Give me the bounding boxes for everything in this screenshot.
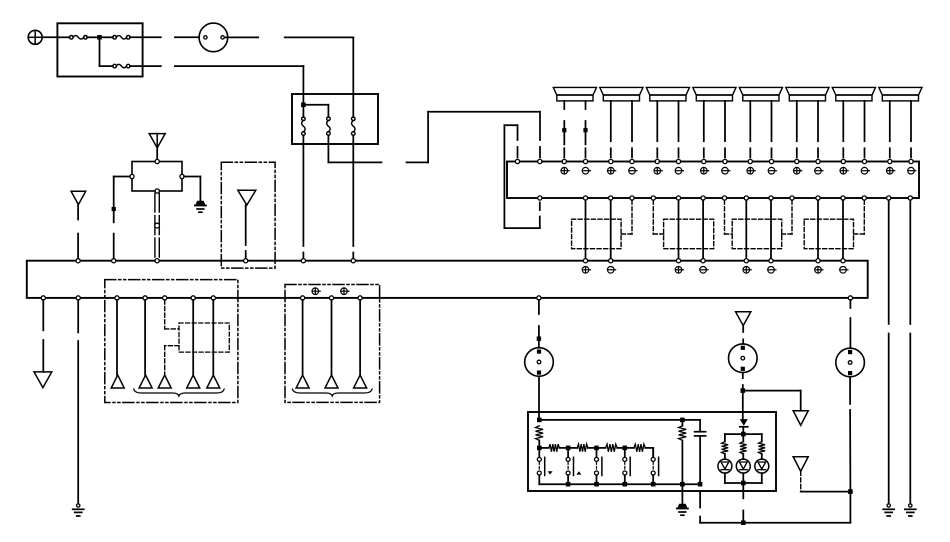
- fuse F4: [302, 117, 306, 135]
- ignition coil T4: [693, 87, 736, 101]
- wire coil T7 pin 2: [864, 101, 866, 158]
- resistor R8: [740, 442, 747, 454]
- capacitor C1: [695, 432, 706, 436]
- fuse F5: [327, 117, 331, 135]
- wire strip to ECM: [610, 200, 612, 258]
- wire: [568, 447, 596, 449]
- node splice: [112, 207, 116, 211]
- resistor R1: [536, 426, 544, 441]
- wire: [742, 326, 744, 344]
- relay box: [292, 94, 378, 144]
- wire: [539, 447, 568, 449]
- resistor R6: [679, 426, 687, 441]
- wire coil T7 pin 1: [842, 101, 844, 158]
- node: [566, 446, 571, 451]
- wire: [359, 300, 361, 375]
- brace: [134, 389, 225, 396]
- ignition coil T3: [646, 87, 689, 101]
- node: [594, 482, 599, 487]
- wire: [742, 427, 744, 434]
- wire ECM to arrow A4: [42, 300, 44, 372]
- wire arrow A2 to ECM: [77, 205, 79, 259]
- ignition coil T7: [832, 87, 875, 101]
- node: [623, 446, 628, 451]
- wire dashed: [165, 300, 179, 329]
- wire fuse F4 to ECM: [302, 135, 304, 258]
- wire coil T3 pin 2: [678, 101, 680, 158]
- resistor R5: [634, 444, 645, 452]
- wire fuse F3 to relay box: [130, 66, 303, 105]
- node relay junction: [301, 103, 306, 108]
- wire dashed arrow A15: [800, 471, 802, 491]
- wire fuse F2 to ignition switch: [130, 36, 199, 38]
- wire coil T5 pin 1: [749, 101, 751, 158]
- resistor R9: [759, 442, 766, 454]
- wire ECM to sensor SN1: [538, 300, 540, 348]
- wire coil pin 1: [563, 101, 565, 158]
- node: [848, 489, 853, 494]
- ignition coil T2: [600, 87, 643, 101]
- wire capacitor return: [699, 492, 701, 523]
- sensor SN3: [836, 348, 865, 377]
- ECM top terminals: [76, 259, 845, 263]
- wire strip to ground right 1: [888, 200, 890, 503]
- LED D3: [736, 459, 750, 473]
- connector arrow A11: [325, 375, 338, 388]
- node: [680, 418, 685, 423]
- ground G4: [883, 504, 894, 516]
- LED D4: [755, 459, 769, 473]
- wire strip to ground right 2: [909, 200, 911, 503]
- shield box S2: [105, 280, 238, 403]
- connector arrow A7: [158, 375, 171, 388]
- brace: [292, 389, 372, 396]
- shield link box: [179, 323, 229, 352]
- connector arrow A6: [139, 375, 152, 388]
- wire coil T2 pin 1: [610, 101, 612, 158]
- wire: [100, 36, 113, 38]
- ignition coil T8: [879, 87, 922, 101]
- connector strip bottom terminals: [538, 196, 913, 200]
- wire ignition switch to relay box: [225, 37, 354, 117]
- coupler C1: [572, 219, 622, 249]
- LED D2: [718, 459, 732, 473]
- connector arrow A10: [296, 375, 309, 388]
- wire to arrow A14: [743, 391, 801, 411]
- wire ECM to sensor SN3: [849, 300, 851, 348]
- wire dashed: [653, 200, 663, 234]
- connector arrow A12: [354, 375, 367, 388]
- wire LED rail: [725, 434, 762, 442]
- shield box S3: [285, 285, 380, 403]
- wire junction down: [99, 37, 101, 66]
- wire bottom rail: [539, 483, 700, 485]
- node: [680, 482, 685, 487]
- node splice: [583, 128, 587, 132]
- wire sensor SN1 to control unit: [538, 376, 540, 420]
- coupler C2: [664, 219, 714, 249]
- wire strip to ECM: [842, 200, 844, 258]
- wire: [116, 300, 118, 375]
- node: [741, 520, 746, 525]
- ground G1: [195, 201, 206, 212]
- wire top rail: [539, 419, 700, 421]
- wire coil T6 pin 2: [817, 101, 819, 158]
- wire: [849, 377, 851, 492]
- wire: [699, 436, 701, 484]
- wire coil T8 pin 1: [889, 101, 891, 158]
- node: [623, 482, 628, 487]
- node: [651, 482, 656, 487]
- ignition switch SW1: [199, 23, 228, 52]
- connector arrow A13: [736, 312, 751, 326]
- wire: [302, 300, 304, 375]
- resistor R4: [606, 444, 618, 452]
- fuse F2: [113, 36, 130, 40]
- ignition coil T5: [739, 87, 782, 101]
- wire: [801, 491, 851, 493]
- ECM bottom terminals: [41, 296, 852, 300]
- node fuse-box junction: [97, 35, 102, 40]
- wire: [331, 300, 333, 375]
- fuse F6: [352, 117, 356, 135]
- connector strip pin marks: [561, 167, 916, 174]
- contact K2: [566, 448, 581, 484]
- wire LED return: [742, 483, 744, 523]
- connector strip top terminals: [515, 159, 913, 163]
- node splice: [562, 128, 566, 132]
- wire: [742, 373, 744, 391]
- shielded pair wire: [155, 193, 159, 261]
- shield box S1: [221, 162, 275, 268]
- wire ECM ground: [681, 484, 683, 504]
- wire coil T5 pin 2: [771, 101, 773, 158]
- connector arrow A3: [238, 190, 256, 205]
- wire arrow A3 to ECM: [245, 205, 247, 259]
- ground G2: [73, 504, 84, 516]
- connector arrow A15: [793, 457, 808, 472]
- wire loop strip-bottom to strip-top: [504, 125, 539, 228]
- wire: [538, 440, 540, 448]
- wire: [192, 300, 194, 375]
- coupler C4: [804, 219, 853, 249]
- sensor SN2: [729, 344, 758, 373]
- wire coil T4 pin 2: [724, 101, 726, 158]
- wire: [849, 492, 851, 523]
- node splice: [537, 337, 541, 341]
- wire sensor SN2 to control unit: [742, 391, 744, 420]
- diode D1: [740, 419, 748, 427]
- connector arrow A5: [111, 375, 124, 388]
- wire ECM to ground G2: [77, 300, 79, 504]
- wire: [212, 300, 214, 375]
- sensor box pin marks: [312, 288, 349, 295]
- wire coil T6 pin 1: [796, 101, 798, 158]
- wire coil T8 pin 2: [910, 101, 912, 158]
- wire filter to ground: [184, 177, 200, 201]
- connector arrow A9: [207, 375, 220, 388]
- wire dashed: [165, 346, 179, 375]
- contact K1: [537, 448, 552, 484]
- contact K4: [623, 448, 630, 484]
- wire strip to ECM: [678, 200, 680, 258]
- coupler C3: [732, 219, 782, 249]
- wire dashed: [854, 200, 865, 234]
- wire: [100, 65, 113, 67]
- wire: [681, 420, 683, 484]
- ECM right pin marks: [582, 267, 848, 274]
- connector arrow A8: [187, 375, 200, 388]
- wire: [144, 300, 146, 375]
- wire bottom return rail: [700, 522, 850, 524]
- wire dashed: [725, 200, 733, 234]
- wire coil pin 2: [585, 101, 587, 158]
- filter terminals: [130, 159, 184, 193]
- resistor R3: [577, 444, 588, 452]
- connector arrow A4: [34, 372, 52, 388]
- wire: [725, 454, 762, 459]
- sensor SN1: [525, 348, 554, 377]
- wire strip to ECM: [745, 200, 747, 258]
- node: [566, 482, 571, 487]
- contact K3: [595, 448, 602, 484]
- wire filter to ECM: [114, 177, 130, 259]
- wire coil T4 pin 1: [703, 101, 705, 158]
- wire fuse F5 to connector strip: [328, 112, 540, 163]
- node: [741, 481, 746, 486]
- wire: [625, 448, 653, 457]
- connector strip: [507, 162, 919, 199]
- fuse box: [57, 23, 142, 76]
- node: [741, 388, 746, 393]
- fuse F1: [70, 36, 88, 40]
- wire: [302, 105, 304, 117]
- wire: [57, 36, 69, 38]
- connector arrow A2: [71, 191, 86, 204]
- wire: [156, 148, 158, 160]
- noise filter box: [132, 162, 182, 192]
- wire LED bottom rail: [725, 473, 762, 483]
- ground G5: [905, 504, 916, 516]
- ignition coil T1: [553, 87, 596, 101]
- control unit box: [528, 412, 776, 491]
- wire dashed: [782, 200, 792, 234]
- resistor R2: [549, 444, 560, 452]
- wire: [303, 105, 328, 117]
- wire strip to ECM: [770, 200, 772, 258]
- fuse F3: [113, 64, 130, 68]
- ignition coil T6: [786, 87, 829, 101]
- wire coil T3 pin 1: [656, 101, 658, 158]
- ground G3: [677, 504, 688, 515]
- contact K5: [651, 448, 658, 484]
- connector joint: [155, 223, 160, 228]
- node: [594, 446, 599, 451]
- battery B1: [28, 30, 42, 44]
- wire: [597, 447, 625, 449]
- node: [537, 418, 542, 423]
- node: [698, 482, 703, 487]
- connector arrow A1: [149, 134, 165, 148]
- wire battery to fuse box: [42, 36, 57, 38]
- wire strip to ECM: [585, 200, 587, 258]
- wire: [87, 36, 99, 38]
- node: [741, 432, 746, 437]
- resistor R7: [722, 442, 729, 454]
- wire strip to ECM: [817, 200, 819, 258]
- wire: [699, 420, 701, 432]
- wire fuse F6 to ECM: [352, 135, 354, 258]
- wire strip to ECM: [702, 200, 704, 258]
- ECM box: [27, 261, 868, 298]
- wire dashed: [621, 200, 632, 234]
- connector arrow A14: [793, 411, 808, 426]
- wire coil T2 pin 2: [631, 101, 633, 158]
- node: [537, 446, 542, 451]
